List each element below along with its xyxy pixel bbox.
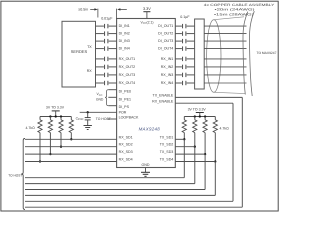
cable wire 4 — [204, 48, 246, 50]
svg-text:TX_SD4: TX_SD4 — [160, 158, 174, 162]
capacitor C row 4 (0.01uF plates) — [104, 46, 106, 50]
wire TX_SD1 bottom bus run — [25, 177, 184, 179]
svg-text:DI_IN1: DI_IN1 — [119, 24, 130, 28]
wire row 8 cap to chip — [109, 82, 117, 84]
resistor R5 4.7k pull-up (right) — [183, 117, 185, 120]
svg-text:RX_IN4: RX_IN4 — [161, 81, 174, 85]
capacitor C row 7 (0.1uF plates) — [182, 73, 184, 77]
wire RX_ENABLE vertical drop — [232, 103, 234, 201]
wire RX_ENABLE — [175, 102, 233, 104]
svg-text:RX_OUT4: RX_OUT4 — [119, 81, 136, 85]
wire row 6 cap to connector — [187, 66, 195, 68]
svg-text:TO MAX9247: TO MAX9247 — [257, 51, 277, 55]
pin stub DI_PS — [108, 105, 116, 107]
wire row 5 cap to chip — [109, 58, 117, 60]
svg-text:3V TO 3.3V: 3V TO 3.3V — [188, 107, 207, 111]
wire RX_ENABLE bottom bus run — [25, 200, 233, 202]
wire row 6 chip to cap right — [175, 66, 182, 68]
bracket to host — [21, 139, 25, 210]
wire row 2 cap to connector — [187, 33, 195, 35]
cable break curve right — [249, 11, 254, 96]
wire row 1 cap to connector — [187, 25, 195, 27]
wire TX_SD3 bottom bus run — [25, 189, 205, 191]
IC SERDES (host-side serializer/deserializer) — [62, 21, 96, 87]
junction POR/C_POR — [87, 111, 89, 113]
capacitor C_POR — [87, 112, 89, 117]
junction R3 to RX_SD wire — [60, 146, 62, 148]
svg-text:GND: GND — [142, 163, 150, 167]
wire row 7 chip to cap right — [175, 74, 182, 76]
wire row 3 cap to connector — [187, 40, 195, 42]
junction R5 to TX_SD wire — [183, 138, 185, 140]
cable wire 1 — [204, 25, 246, 27]
wire TX_SD2 vertical drop — [194, 147, 196, 184]
cable wire 2 — [204, 33, 246, 35]
cable jacket bottom line — [214, 92, 246, 93]
capacitor C row 6 (0.1uF plates) — [182, 65, 184, 69]
wire row 6 SERDES to cap — [96, 66, 104, 68]
wire TX_ENABLE vertical drop — [241, 97, 243, 207]
wire supply rail left — [40, 116, 71, 118]
pin stub DI_PE0 — [108, 89, 116, 91]
capacitor C row 7 (0.01uF plates) — [104, 73, 106, 77]
svg-text:RX_OUT3: RX_OUT3 — [119, 73, 136, 77]
wire row 8 SERDES to cap — [96, 82, 104, 84]
wire row 1 SERDES to cap — [96, 25, 104, 27]
svg-text:4x COPPER CABLE ASSEMBLY: 4x COPPER CABLE ASSEMBLY — [204, 3, 276, 7]
wire TX_SD3 — [175, 153, 205, 155]
wire TX_SD4 bottom bus run — [25, 194, 215, 196]
capacitor C row 8 (0.1uF plates) — [182, 81, 184, 85]
svg-text:3.3V: 3.3V — [143, 7, 151, 11]
wire row 5 cap to connector — [187, 58, 195, 60]
svg-text:TX_SD2: TX_SD2 — [160, 143, 174, 147]
wire POR — [80, 111, 117, 113]
wire RX_SD1 to host — [25, 138, 117, 140]
svg-text:DI_IN3: DI_IN3 — [119, 39, 130, 43]
svg-text:DI_OUT4: DI_OUT4 — [158, 47, 173, 51]
svg-text:POR: POR — [119, 110, 127, 114]
connector J1 (cable connector) — [195, 19, 205, 89]
cable wire 6 — [204, 66, 246, 68]
svg-text:CPOR: CPOR — [76, 117, 84, 122]
wire row 6 cap to chip — [109, 66, 117, 68]
junction rail left 3 — [60, 115, 62, 117]
wire TX_SD2 — [175, 146, 195, 148]
svg-text:TX_SD1: TX_SD1 — [160, 135, 174, 139]
svg-text:RX_ENABLE: RX_ENABLE — [152, 99, 174, 103]
svg-text:RX_IN2: RX_IN2 — [161, 65, 174, 69]
svg-text:•20m (24AWG): •20m (24AWG) — [215, 8, 255, 12]
wire row 3 cap to chip — [109, 40, 117, 42]
junction rail right 2 — [199, 115, 201, 117]
wire row 2 chip to cap right — [175, 33, 182, 35]
wire TX_SD4 — [175, 161, 215, 163]
svg-text:DI_PS: DI_PS — [119, 105, 130, 109]
resistor R8 4.7k pull-up (right) — [214, 117, 216, 120]
cable wire 5 — [204, 58, 246, 60]
IC U1 MAX9248 deserializer/serializer — [117, 19, 176, 168]
capacitor C row 5 (0.01uF plates) — [104, 57, 106, 61]
junction R1 to RX_SD wire — [39, 160, 41, 162]
brace grouping VCC/GND straps — [105, 90, 108, 106]
cable wire 8 — [204, 82, 246, 84]
wire row 8 cap to connector — [187, 82, 195, 84]
svg-text:VCC: VCC — [97, 92, 103, 97]
svg-text:TO HOST: TO HOST — [8, 173, 22, 177]
junction rail right 3 — [204, 115, 206, 117]
pin stub DI_PE1 — [108, 96, 116, 98]
wire row 4 SERDES to cap — [96, 48, 104, 50]
svg-text:0.1µF: 0.1µF — [180, 15, 190, 19]
capacitor C row 2 (0.1uF plates) — [182, 31, 184, 35]
wire row 2 cap to chip — [109, 33, 117, 35]
wire row 4 cap to chip — [109, 48, 117, 50]
capacitor C row 2 (0.01uF plates) — [104, 31, 106, 35]
svg-text:DI_IN4: DI_IN4 — [119, 47, 130, 51]
wire TX_SD1 — [175, 138, 184, 140]
wire TX_SD3 vertical drop — [204, 154, 206, 189]
svg-text:VCC(2:1): VCC(2:1) — [141, 21, 154, 26]
svg-text:RX_SD3: RX_SD3 — [119, 150, 133, 154]
wire TX_SD4 vertical drop — [214, 162, 216, 196]
svg-text:RX_SD4: RX_SD4 — [119, 158, 133, 162]
capacitor C row 1 (0.01uF plates) — [104, 24, 106, 28]
svg-text:SERDES: SERDES — [71, 49, 88, 54]
svg-text:RX: RX — [87, 69, 93, 73]
wire TX_ENABLE — [175, 96, 242, 98]
wire row 5 SERDES to cap — [96, 58, 104, 60]
cable break curve left — [243, 12, 248, 95]
junction rail left 2 — [55, 115, 57, 117]
wire row 1 chip to cap right — [175, 25, 182, 27]
capacitor C row 5 (0.1uF plates) — [182, 57, 184, 61]
wire row 3 chip to cap right — [175, 40, 182, 42]
wire row 1 cap to chip — [109, 25, 117, 27]
cable bundle ellipse (near end) — [207, 20, 221, 93]
wire row 3 SERDES to cap — [96, 40, 104, 42]
capacitor C row 3 (0.1uF plates) — [182, 39, 184, 43]
svg-text:RX_SD2: RX_SD2 — [119, 143, 133, 147]
svg-text:TX: TX — [87, 45, 92, 49]
cable jacket top line — [214, 17, 244, 20]
svg-text:RX_IN3: RX_IN3 — [161, 73, 174, 77]
svg-text:0.01µF: 0.01µF — [101, 17, 113, 21]
svg-text:DI_OUT1: DI_OUT1 — [158, 24, 173, 28]
ground symbol at C_POR — [84, 125, 92, 127]
capacitor C row 8 (0.01uF plates) — [104, 81, 106, 85]
junction R4 to RX_SD wire — [70, 138, 72, 140]
junction R8 to TX_SD wire — [214, 160, 216, 162]
junction rail left 1 — [49, 115, 51, 117]
wire row 4 cap to connector — [187, 48, 195, 50]
svg-text:DI_OUT2: DI_OUT2 — [158, 32, 173, 36]
resistor R3 4.7k pull-up (left) — [60, 117, 62, 120]
junction R7 to TX_SD wire — [204, 153, 206, 155]
resistor R6 4.7k pull-up (right) — [194, 117, 196, 120]
svg-text:DI_IN2: DI_IN2 — [119, 32, 130, 36]
svg-text:≥0.5in: ≥0.5in — [78, 8, 88, 12]
wire row 8 chip to cap right — [175, 82, 182, 84]
svg-text:DI_PE1: DI_PE1 — [119, 97, 131, 101]
wire TX_SD2 bottom bus run — [25, 183, 195, 185]
junction rail right 1 — [194, 115, 196, 117]
wire row 5 chip to cap right — [175, 58, 182, 60]
svg-text:MAX9248: MAX9248 — [139, 126, 161, 131]
capacitor C row 4 (0.1uF plates) — [182, 46, 184, 50]
resistor R2 4.7k pull-up (left) — [49, 117, 51, 120]
resistor R7 4.7k pull-up (right) — [204, 117, 206, 120]
svg-text:RX_SD1: RX_SD1 — [119, 135, 133, 139]
wire row 7 cap to connector — [187, 74, 195, 76]
svg-text:DI_OUT3: DI_OUT3 — [158, 39, 173, 43]
capacitor C row 3 (0.01uF plates) — [104, 39, 106, 43]
svg-text:3V TO 3.3V: 3V TO 3.3V — [46, 105, 65, 109]
svg-text:4.7kΩ: 4.7kΩ — [25, 126, 35, 130]
wire RX_SD3 to host — [25, 153, 117, 155]
cable wire 3 — [204, 40, 246, 42]
resistor R4 4.7k pull-up (left) — [70, 117, 72, 120]
svg-text:RX_IN1: RX_IN1 — [161, 57, 174, 61]
wire supply rail right — [184, 116, 215, 118]
wire TX_SD1 vertical drop — [183, 139, 185, 177]
ground symbol at chip GND — [145, 168, 147, 173]
wire TX_ENABLE bottom bus run — [25, 206, 242, 208]
svg-text:TX_SD3: TX_SD3 — [160, 150, 174, 154]
wire row 7 SERDES to cap — [96, 74, 104, 76]
svg-text:4.7kΩ: 4.7kΩ — [220, 126, 230, 130]
resistor R1 4.7k pull-up (left) — [39, 117, 41, 120]
junction R6 to TX_SD wire — [194, 146, 196, 148]
svg-text:RX_OUT1: RX_OUT1 — [119, 57, 136, 61]
wire row 2 SERDES to cap — [96, 33, 104, 35]
svg-text:TX_ENABLE: TX_ENABLE — [153, 94, 174, 98]
svg-text:•15m (28AWG): •15m (28AWG) — [214, 12, 254, 16]
svg-text:LOOPBACK: LOOPBACK — [119, 115, 139, 119]
wire RX_SD4 to host — [25, 161, 117, 163]
svg-text:RX_OUT2: RX_OUT2 — [119, 65, 136, 69]
svg-text:GND: GND — [96, 97, 104, 101]
capacitor C row 6 (0.01uF plates) — [104, 65, 106, 69]
svg-text:DI_PE0: DI_PE0 — [119, 90, 131, 94]
wire row 4 chip to cap right — [175, 48, 182, 50]
wire RX_SD2 to host — [25, 146, 117, 148]
capacitor C row 1 (0.1uF plates) — [182, 24, 184, 28]
junction R2 to RX_SD wire — [49, 153, 51, 155]
wire row 7 cap to chip — [109, 74, 117, 76]
cable wire 7 — [204, 74, 246, 76]
